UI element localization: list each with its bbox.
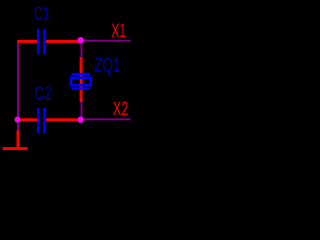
svg-text:C2: C2 [34,83,52,105]
svg-text:X2: X2 [113,98,129,120]
svg-text:X1: X1 [111,20,126,42]
svg-text:ZQ1: ZQ1 [94,55,121,77]
svg-text:C1: C1 [34,3,50,25]
